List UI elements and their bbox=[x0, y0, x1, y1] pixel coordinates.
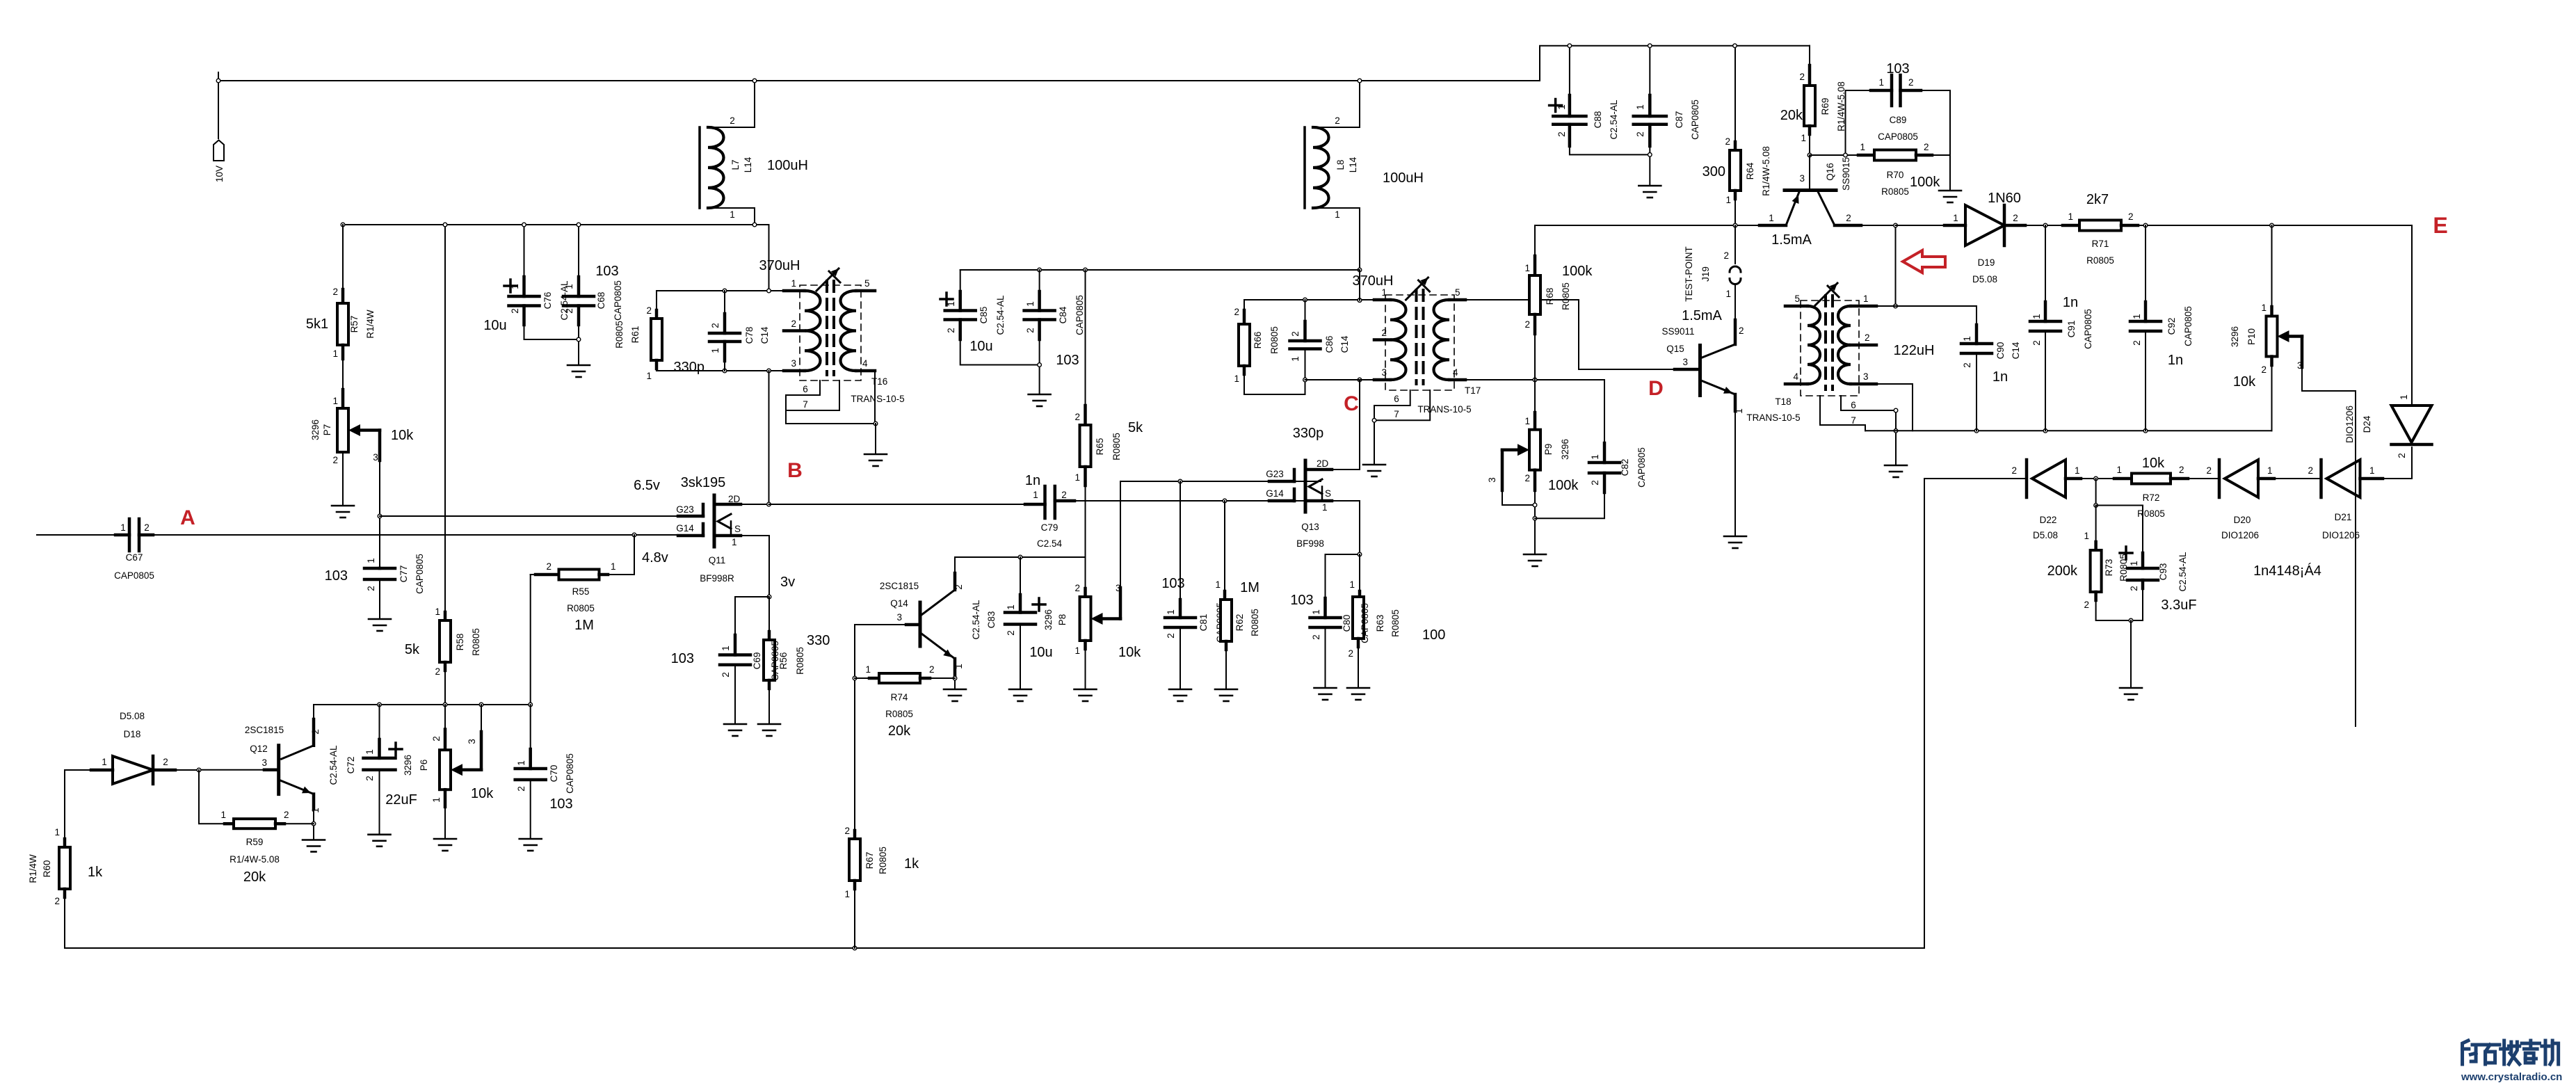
svg-text:C82: C82 bbox=[1620, 459, 1630, 476]
svg-text:R1/4W: R1/4W bbox=[28, 854, 38, 883]
svg-text:4: 4 bbox=[1453, 367, 1458, 378]
svg-text:R1/4W: R1/4W bbox=[365, 310, 376, 339]
svg-text:1: 1 bbox=[564, 284, 574, 289]
svg-text:1n: 1n bbox=[2168, 353, 2183, 368]
svg-text:1: 1 bbox=[611, 561, 616, 572]
svg-text:1: 1 bbox=[1234, 374, 1239, 384]
svg-text:1: 1 bbox=[1215, 579, 1221, 590]
svg-text:103: 103 bbox=[595, 264, 618, 279]
svg-text:1: 1 bbox=[102, 757, 107, 767]
svg-text:2: 2 bbox=[163, 757, 168, 767]
svg-text:P6: P6 bbox=[419, 760, 429, 771]
svg-text:2: 2 bbox=[646, 305, 652, 316]
svg-text:R0805: R0805 bbox=[2086, 255, 2114, 266]
svg-text:R58: R58 bbox=[455, 634, 465, 651]
svg-text:CAP0805: CAP0805 bbox=[2083, 309, 2093, 349]
svg-text:C86: C86 bbox=[1324, 336, 1335, 353]
svg-text:3296: 3296 bbox=[310, 419, 321, 440]
svg-text:R57: R57 bbox=[349, 316, 360, 333]
svg-text:1.5mA: 1.5mA bbox=[1682, 308, 1722, 323]
svg-text:B: B bbox=[787, 459, 803, 482]
svg-text:2: 2 bbox=[1166, 633, 1176, 639]
svg-text:D20: D20 bbox=[2234, 515, 2251, 525]
svg-text:1: 1 bbox=[120, 522, 126, 533]
svg-text:6.5v: 6.5v bbox=[634, 478, 660, 493]
svg-text:C: C bbox=[1344, 392, 1359, 415]
svg-text:Q15: Q15 bbox=[1666, 344, 1684, 354]
svg-text:20k: 20k bbox=[888, 723, 911, 739]
svg-text:1: 1 bbox=[1725, 289, 1731, 299]
svg-text:2D: 2D bbox=[1317, 458, 1329, 469]
svg-text:D5.08: D5.08 bbox=[1972, 274, 1997, 284]
svg-text:3: 3 bbox=[1799, 173, 1805, 184]
svg-text:1: 1 bbox=[1953, 213, 1958, 223]
svg-text:C83: C83 bbox=[986, 611, 997, 629]
svg-text:2: 2 bbox=[2179, 465, 2184, 475]
svg-text:7: 7 bbox=[1394, 409, 1399, 419]
svg-text:7: 7 bbox=[803, 399, 808, 410]
svg-text:D5.08: D5.08 bbox=[2033, 530, 2058, 540]
svg-text:C89: C89 bbox=[1890, 115, 1907, 125]
svg-text:C87: C87 bbox=[1674, 111, 1684, 129]
svg-text:TRANS-10-5: TRANS-10-5 bbox=[1417, 404, 1471, 415]
svg-text:L7: L7 bbox=[730, 159, 741, 170]
svg-text:7: 7 bbox=[1851, 415, 1856, 426]
svg-text:E: E bbox=[2433, 213, 2447, 238]
svg-text:3: 3 bbox=[1863, 371, 1869, 382]
svg-text:10k: 10k bbox=[2233, 374, 2256, 390]
svg-text:T17: T17 bbox=[1465, 385, 1481, 396]
svg-text:1: 1 bbox=[721, 645, 731, 651]
svg-text:2: 2 bbox=[1635, 131, 1645, 137]
svg-text:1: 1 bbox=[1381, 287, 1387, 298]
svg-text:2SC1815: 2SC1815 bbox=[245, 725, 284, 735]
svg-text:4.8v: 4.8v bbox=[642, 550, 668, 565]
svg-text:1: 1 bbox=[366, 558, 376, 563]
svg-text:R55: R55 bbox=[572, 586, 590, 597]
svg-text:22uF: 22uF bbox=[385, 792, 417, 808]
svg-text:1n: 1n bbox=[2063, 295, 2078, 310]
svg-text:2: 2 bbox=[364, 776, 375, 781]
svg-text:CAP0805: CAP0805 bbox=[613, 280, 623, 321]
svg-text:D24: D24 bbox=[2362, 415, 2372, 433]
svg-text:2SC1815: 2SC1815 bbox=[880, 581, 919, 591]
svg-text:R1/4W-5.08: R1/4W-5.08 bbox=[230, 854, 280, 865]
svg-text:2: 2 bbox=[2308, 465, 2313, 476]
svg-text:10k: 10k bbox=[471, 786, 494, 801]
svg-text:L8: L8 bbox=[1335, 159, 1346, 170]
svg-text:1n: 1n bbox=[1025, 473, 1040, 488]
svg-text:5: 5 bbox=[1455, 287, 1460, 298]
svg-text:20k: 20k bbox=[243, 869, 266, 885]
svg-text:R61: R61 bbox=[630, 326, 641, 344]
svg-text:R63: R63 bbox=[1375, 615, 1385, 632]
svg-text:CAP0805: CAP0805 bbox=[114, 570, 154, 581]
svg-text:2: 2 bbox=[2031, 340, 2042, 346]
svg-text:1: 1 bbox=[2068, 211, 2073, 222]
svg-text:C85: C85 bbox=[979, 307, 989, 324]
svg-text:103: 103 bbox=[325, 568, 348, 584]
svg-text:S: S bbox=[734, 524, 741, 534]
svg-text:1: 1 bbox=[1801, 133, 1806, 143]
svg-text:R0805: R0805 bbox=[567, 603, 595, 613]
svg-text:10u: 10u bbox=[483, 318, 506, 333]
svg-text:10u: 10u bbox=[1029, 645, 1052, 660]
svg-text:6: 6 bbox=[1394, 394, 1399, 404]
svg-text:CAP0805: CAP0805 bbox=[1360, 603, 1370, 643]
svg-text:2: 2 bbox=[1865, 332, 1870, 343]
svg-text:1: 1 bbox=[310, 808, 321, 813]
svg-text:C77: C77 bbox=[399, 565, 409, 583]
svg-text:1: 1 bbox=[710, 348, 721, 353]
svg-text:CAP0805: CAP0805 bbox=[1878, 131, 1918, 142]
svg-text:R1/4W-5.08: R1/4W-5.08 bbox=[1761, 146, 1771, 196]
svg-text:C72: C72 bbox=[346, 757, 356, 774]
svg-text:2: 2 bbox=[1061, 490, 1067, 500]
svg-text:1: 1 bbox=[2075, 465, 2080, 476]
svg-text:1M: 1M bbox=[574, 618, 594, 633]
svg-text:Q13: Q13 bbox=[1301, 522, 1319, 532]
svg-text:3: 3 bbox=[1381, 367, 1387, 378]
svg-text:2: 2 bbox=[546, 561, 552, 572]
svg-text:122uH: 122uH bbox=[1894, 343, 1935, 358]
svg-text:DIO1206: DIO1206 bbox=[2221, 530, 2259, 540]
svg-text:103: 103 bbox=[671, 651, 694, 666]
svg-text:200k: 200k bbox=[2047, 563, 2078, 579]
svg-text:L14: L14 bbox=[1348, 157, 1358, 173]
svg-text:2: 2 bbox=[1799, 72, 1805, 82]
svg-text:1: 1 bbox=[2084, 531, 2089, 541]
svg-text:T16: T16 bbox=[871, 376, 887, 387]
svg-text:10k: 10k bbox=[1118, 645, 1141, 660]
svg-text:1N60: 1N60 bbox=[1988, 191, 2021, 206]
svg-text:CAP0805: CAP0805 bbox=[1636, 447, 1647, 488]
svg-text:2: 2 bbox=[730, 115, 735, 126]
svg-text:2: 2 bbox=[2397, 453, 2407, 458]
svg-text:5k: 5k bbox=[405, 642, 420, 657]
svg-text:C84: C84 bbox=[1058, 306, 1068, 323]
svg-text:2: 2 bbox=[366, 586, 376, 591]
svg-text:1: 1 bbox=[1074, 645, 1080, 656]
svg-text:TRANS-10-5: TRANS-10-5 bbox=[851, 394, 904, 404]
svg-text:103: 103 bbox=[1056, 353, 1079, 368]
svg-text:2: 2 bbox=[284, 810, 289, 820]
svg-text:3: 3 bbox=[1682, 357, 1688, 367]
svg-text:10k: 10k bbox=[2142, 456, 2165, 471]
svg-text:3296: 3296 bbox=[1560, 439, 1570, 460]
svg-text:1: 1 bbox=[220, 810, 226, 820]
svg-text:2: 2 bbox=[332, 455, 338, 465]
svg-text:G23: G23 bbox=[676, 504, 694, 515]
svg-text:10V: 10V bbox=[214, 166, 225, 182]
svg-text:C91: C91 bbox=[2066, 321, 2077, 338]
svg-text:1: 1 bbox=[953, 664, 964, 669]
svg-text:R0805: R0805 bbox=[1561, 282, 1571, 310]
svg-text:1: 1 bbox=[2369, 465, 2375, 476]
svg-text:1: 1 bbox=[2129, 561, 2139, 566]
svg-text:R0805: R0805 bbox=[795, 647, 805, 675]
svg-text:1: 1 bbox=[1734, 408, 1744, 414]
svg-text:R74: R74 bbox=[891, 692, 908, 703]
svg-text:J19: J19 bbox=[1700, 266, 1711, 282]
svg-text:1: 1 bbox=[791, 278, 796, 289]
svg-text:2: 2 bbox=[2129, 586, 2139, 591]
svg-text:1: 1 bbox=[1590, 454, 1600, 460]
svg-text:2: 2 bbox=[1725, 136, 1730, 147]
svg-text:2: 2 bbox=[1524, 473, 1530, 483]
svg-text:1: 1 bbox=[1290, 356, 1301, 362]
svg-text:1k: 1k bbox=[904, 856, 919, 872]
svg-text:C2.54: C2.54 bbox=[1037, 538, 1063, 549]
svg-text:R68: R68 bbox=[1545, 288, 1555, 305]
svg-text:370uH: 370uH bbox=[1353, 273, 1394, 289]
svg-text:1: 1 bbox=[2267, 465, 2273, 476]
svg-text:C78: C78 bbox=[744, 327, 755, 344]
svg-text:2: 2 bbox=[1348, 648, 1353, 659]
svg-text:1: 1 bbox=[1524, 416, 1530, 426]
svg-text:D22: D22 bbox=[2040, 515, 2057, 525]
svg-text:2: 2 bbox=[946, 328, 956, 333]
svg-text:1: 1 bbox=[865, 664, 871, 675]
svg-text:1: 1 bbox=[1962, 336, 1972, 342]
svg-text:C81: C81 bbox=[1198, 614, 1209, 632]
svg-text:1: 1 bbox=[1556, 104, 1567, 110]
svg-text:1: 1 bbox=[2132, 314, 2142, 319]
svg-text:1: 1 bbox=[431, 797, 442, 803]
svg-text:2: 2 bbox=[54, 896, 60, 906]
svg-text:SS9015: SS9015 bbox=[1841, 157, 1851, 191]
svg-text:1: 1 bbox=[1311, 609, 1321, 615]
svg-text:2k7: 2k7 bbox=[2086, 192, 2109, 207]
svg-text:www.crystalradio.cn: www.crystalradio.cn bbox=[2461, 1071, 2562, 1083]
svg-text:103: 103 bbox=[549, 796, 572, 812]
svg-text:2: 2 bbox=[516, 786, 526, 792]
svg-text:1: 1 bbox=[1322, 502, 1328, 513]
svg-text:C14: C14 bbox=[1339, 335, 1350, 353]
svg-text:2: 2 bbox=[435, 666, 440, 677]
svg-text:1: 1 bbox=[510, 284, 520, 289]
svg-text:3: 3 bbox=[2297, 360, 2303, 371]
svg-text:100k: 100k bbox=[1910, 175, 1940, 190]
svg-text:C80: C80 bbox=[1342, 615, 1352, 632]
svg-text:2: 2 bbox=[2132, 340, 2142, 346]
svg-text:10k: 10k bbox=[391, 428, 414, 443]
svg-text:2: 2 bbox=[2084, 600, 2089, 610]
svg-text:5k1: 5k1 bbox=[306, 316, 328, 332]
svg-text:330: 330 bbox=[807, 633, 830, 648]
svg-text:BF998: BF998 bbox=[1296, 538, 1324, 549]
svg-text:SS9011: SS9011 bbox=[1661, 326, 1694, 337]
svg-text:2: 2 bbox=[929, 664, 935, 675]
svg-text:1: 1 bbox=[1860, 142, 1865, 152]
svg-text:6: 6 bbox=[1851, 400, 1856, 410]
svg-text:G14: G14 bbox=[676, 523, 694, 534]
svg-text:4: 4 bbox=[1793, 371, 1798, 382]
svg-text:4: 4 bbox=[862, 358, 868, 369]
svg-text:5k: 5k bbox=[1128, 420, 1143, 435]
svg-text:C68: C68 bbox=[596, 292, 606, 310]
svg-text:3296: 3296 bbox=[2230, 326, 2240, 347]
svg-text:1: 1 bbox=[2031, 314, 2042, 319]
svg-text:G23: G23 bbox=[1266, 469, 1284, 479]
svg-text:D21: D21 bbox=[2335, 512, 2352, 522]
svg-text:1: 1 bbox=[332, 348, 338, 359]
svg-text:1k: 1k bbox=[88, 865, 103, 880]
svg-text:2: 2 bbox=[2013, 213, 2018, 223]
svg-text:3.3uF: 3.3uF bbox=[2161, 597, 2196, 613]
svg-text:DIO1206: DIO1206 bbox=[2322, 530, 2360, 540]
svg-text:370uH: 370uH bbox=[759, 258, 800, 273]
svg-text:1: 1 bbox=[1725, 195, 1731, 205]
svg-text:1: 1 bbox=[844, 889, 850, 899]
svg-text:R67: R67 bbox=[864, 852, 875, 869]
svg-text:1: 1 bbox=[1006, 604, 1016, 610]
svg-text:1: 1 bbox=[2399, 394, 2409, 400]
svg-text:C90: C90 bbox=[1995, 342, 2006, 360]
svg-text:S: S bbox=[1325, 488, 1331, 499]
svg-text:R59: R59 bbox=[246, 837, 264, 847]
svg-text:R70: R70 bbox=[1887, 170, 1904, 180]
svg-text:2: 2 bbox=[1290, 331, 1301, 337]
svg-text:R0805: R0805 bbox=[471, 628, 481, 656]
svg-text:100uH: 100uH bbox=[1383, 170, 1424, 186]
svg-text:1: 1 bbox=[364, 749, 375, 755]
svg-text:R0805: R0805 bbox=[1250, 609, 1260, 636]
svg-text:2: 2 bbox=[1962, 362, 1972, 368]
svg-text:A: A bbox=[180, 506, 195, 529]
svg-text:1: 1 bbox=[1635, 104, 1645, 110]
svg-text:2: 2 bbox=[1234, 307, 1239, 317]
svg-text:2: 2 bbox=[1381, 328, 1387, 338]
svg-text:1: 1 bbox=[1033, 490, 1038, 500]
svg-text:100k: 100k bbox=[1548, 478, 1579, 493]
svg-text:R69: R69 bbox=[1820, 98, 1830, 115]
svg-text:1: 1 bbox=[435, 607, 440, 617]
svg-text:CAP0805: CAP0805 bbox=[1074, 295, 1085, 335]
svg-text:2: 2 bbox=[721, 672, 731, 677]
svg-text:3: 3 bbox=[1487, 477, 1497, 483]
svg-text:3v: 3v bbox=[780, 575, 795, 590]
svg-text:R0805: R0805 bbox=[614, 321, 625, 348]
svg-text:10u: 10u bbox=[969, 339, 992, 354]
svg-text:2: 2 bbox=[1908, 77, 1914, 88]
svg-text:C93: C93 bbox=[2158, 563, 2168, 581]
svg-text:1: 1 bbox=[730, 209, 735, 220]
svg-text:2: 2 bbox=[710, 323, 721, 328]
svg-text:R66: R66 bbox=[1253, 332, 1263, 349]
svg-text:C88: C88 bbox=[1593, 111, 1603, 129]
svg-text:R72: R72 bbox=[2143, 492, 2160, 503]
svg-text:1: 1 bbox=[332, 396, 338, 406]
svg-text:1: 1 bbox=[1349, 579, 1355, 590]
svg-text:R62: R62 bbox=[1234, 614, 1245, 632]
svg-text:2: 2 bbox=[2261, 364, 2267, 375]
svg-text:Q11: Q11 bbox=[709, 555, 726, 565]
svg-text:C70: C70 bbox=[549, 765, 559, 783]
svg-text:1: 1 bbox=[54, 827, 60, 837]
svg-text:T18: T18 bbox=[1775, 396, 1791, 407]
svg-text:C2.54-AL: C2.54-AL bbox=[2177, 552, 2188, 592]
svg-text:103: 103 bbox=[1161, 576, 1184, 591]
svg-text:2: 2 bbox=[1074, 412, 1080, 422]
svg-text:1: 1 bbox=[2261, 303, 2267, 313]
svg-text:2: 2 bbox=[844, 826, 850, 836]
svg-text:1: 1 bbox=[2116, 465, 2122, 475]
svg-text:C79: C79 bbox=[1041, 522, 1058, 533]
svg-text:C14: C14 bbox=[759, 326, 770, 344]
svg-text:3: 3 bbox=[373, 452, 378, 463]
svg-text:1: 1 bbox=[1863, 294, 1869, 304]
svg-text:R60: R60 bbox=[42, 860, 52, 878]
svg-text:2: 2 bbox=[1335, 115, 1340, 126]
svg-text:330p: 330p bbox=[674, 360, 705, 375]
svg-text:3: 3 bbox=[467, 739, 477, 744]
svg-text:2: 2 bbox=[791, 319, 796, 329]
svg-text:3296: 3296 bbox=[1043, 609, 1054, 630]
svg-text:TEST-POINT: TEST-POINT bbox=[1684, 246, 1694, 302]
svg-text:C69: C69 bbox=[752, 652, 762, 670]
svg-text:6: 6 bbox=[803, 384, 808, 394]
svg-text:R0805: R0805 bbox=[2137, 508, 2165, 519]
svg-text:2: 2 bbox=[144, 522, 150, 533]
svg-text:R64: R64 bbox=[1745, 162, 1755, 179]
svg-text:L14: L14 bbox=[743, 157, 753, 173]
svg-text:R65: R65 bbox=[1095, 438, 1105, 456]
svg-text:TRANS-10-5: TRANS-10-5 bbox=[1746, 412, 1800, 423]
svg-text:P10: P10 bbox=[2246, 328, 2257, 345]
svg-text:P8: P8 bbox=[1057, 614, 1068, 626]
svg-text:1: 1 bbox=[1074, 472, 1080, 483]
svg-text:1: 1 bbox=[1335, 209, 1340, 220]
svg-text:2: 2 bbox=[310, 729, 321, 735]
svg-text:2D: 2D bbox=[728, 494, 741, 504]
svg-text:2: 2 bbox=[2206, 465, 2212, 476]
svg-text:DIO1206: DIO1206 bbox=[2344, 406, 2355, 443]
svg-text:103: 103 bbox=[1290, 593, 1313, 608]
svg-text:R0805: R0805 bbox=[1269, 326, 1280, 354]
svg-text:300: 300 bbox=[1702, 164, 1725, 179]
svg-text:3: 3 bbox=[896, 612, 902, 623]
svg-text:2: 2 bbox=[1074, 583, 1080, 593]
svg-text:CAP0805: CAP0805 bbox=[1690, 99, 1700, 140]
svg-text:2: 2 bbox=[1025, 328, 1036, 333]
svg-text:R0805: R0805 bbox=[1390, 609, 1401, 637]
svg-text:2: 2 bbox=[1590, 480, 1600, 486]
svg-text:CAP0805: CAP0805 bbox=[414, 554, 425, 594]
svg-text:P9: P9 bbox=[1543, 444, 1554, 456]
svg-text:R56: R56 bbox=[778, 652, 789, 670]
svg-text:C2.54-AL: C2.54-AL bbox=[971, 600, 981, 640]
svg-text:BF998R: BF998R bbox=[700, 573, 734, 584]
svg-text:2: 2 bbox=[564, 308, 574, 314]
svg-text:1: 1 bbox=[646, 371, 652, 381]
svg-text:Q12: Q12 bbox=[250, 744, 268, 754]
svg-text:3: 3 bbox=[261, 757, 267, 768]
svg-text:1n4148¡Á4: 1n4148¡Á4 bbox=[2253, 563, 2321, 579]
svg-text:D: D bbox=[1648, 377, 1664, 400]
svg-text:C14: C14 bbox=[2011, 342, 2021, 359]
svg-text:1: 1 bbox=[1524, 263, 1530, 273]
svg-text:103: 103 bbox=[1886, 61, 1909, 77]
svg-text:D5.08: D5.08 bbox=[120, 711, 145, 721]
svg-text:C67: C67 bbox=[126, 552, 143, 563]
svg-text:P7: P7 bbox=[322, 424, 332, 436]
svg-text:1n: 1n bbox=[1993, 369, 2008, 385]
svg-text:2: 2 bbox=[1924, 142, 1929, 152]
svg-text:3sk195: 3sk195 bbox=[681, 475, 726, 490]
svg-text:100: 100 bbox=[1422, 627, 1445, 643]
svg-text:1M: 1M bbox=[1240, 580, 1259, 595]
